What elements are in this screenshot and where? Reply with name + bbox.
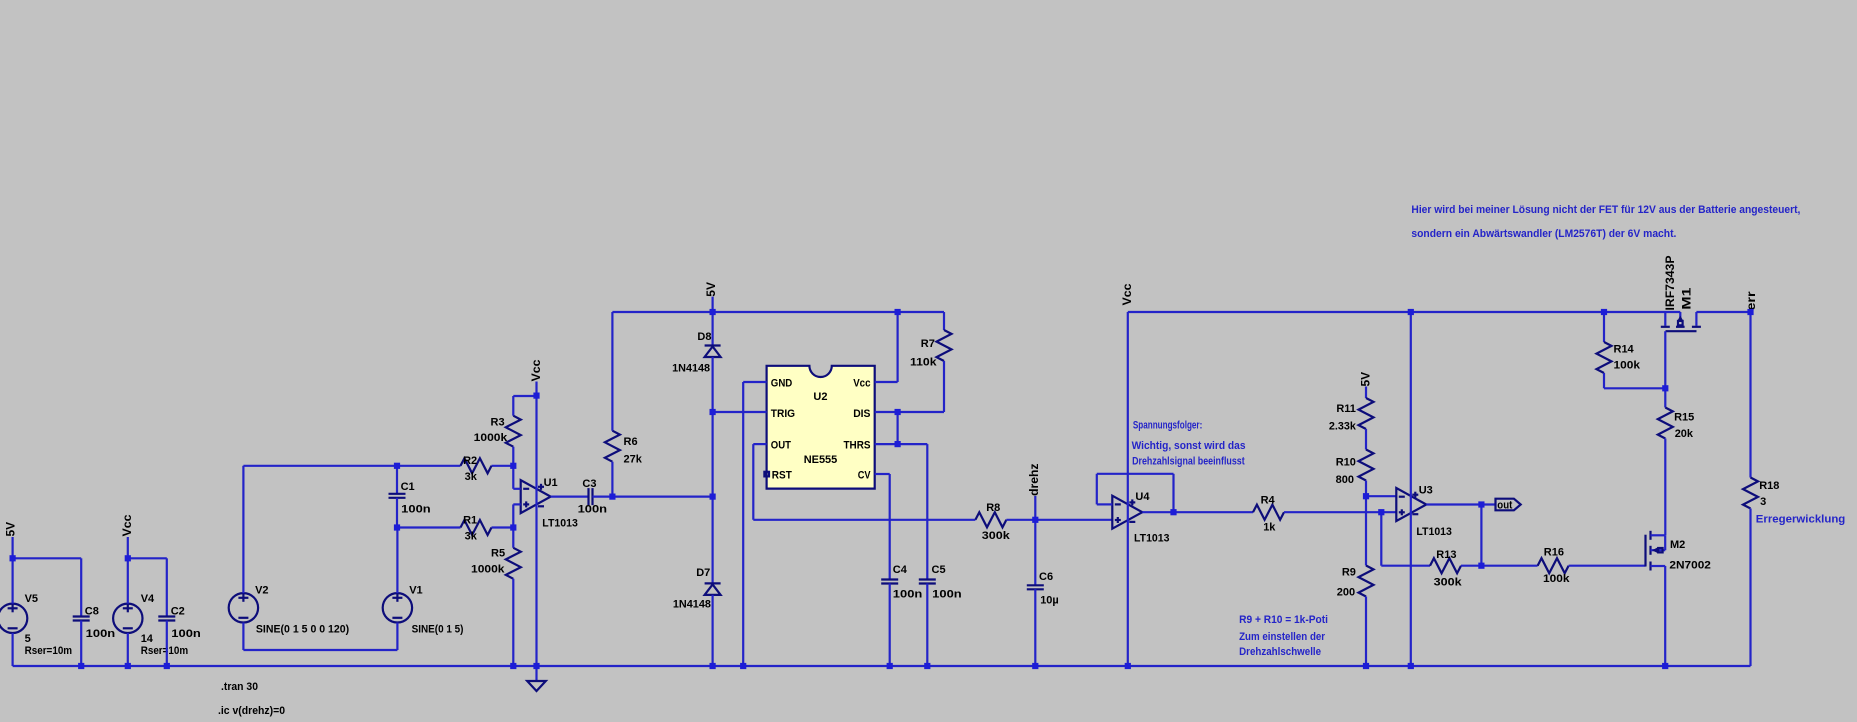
svg-text:Vcc: Vcc: [1120, 283, 1134, 305]
svg-text:R16: R16: [1544, 547, 1564, 559]
annotation Erregerwicklung: [1756, 514, 1846, 526]
capacitor C8: [73, 558, 116, 666]
svg-text:out: out: [1497, 499, 1512, 511]
svg-text:GND: GND: [771, 377, 793, 389]
wire V2 bottom: [243, 623, 397, 651]
op-amp U1 LT1013: [521, 477, 578, 530]
svg-text:3k: 3k: [465, 531, 478, 543]
junction nodes: [10, 309, 1754, 669]
svg-text:C5: C5: [932, 564, 946, 576]
wire U4 output: [1142, 511, 1253, 513]
svg-text:sondern ein Abwärtswandler (LM: sondern ein Abwärtswandler (LM2576T) der…: [1411, 228, 1676, 240]
svg-text:5V: 5V: [4, 522, 18, 537]
capacitor C6: [1027, 520, 1059, 666]
wire V1 bottom: [396, 623, 398, 651]
wire U1 non-inverting input: [513, 504, 520, 527]
svg-text:SINE(0 1 5 0 0 120): SINE(0 1 5 0 0 120): [256, 624, 350, 636]
capacitor C4: [881, 564, 922, 666]
svg-text:C3: C3: [582, 478, 596, 490]
svg-text:C8: C8: [85, 606, 99, 618]
capacitor C1: [389, 466, 432, 528]
pin wire 555 TRIG: [713, 411, 767, 413]
resistor R6: [605, 312, 643, 497]
annotation line 2: [1411, 228, 1676, 240]
pin wire 555 Vcc: [875, 312, 898, 382]
net label err: [1744, 291, 1758, 310]
wire Vcc rail: [1128, 311, 1681, 313]
svg-text:Spannungsfolger:: Spannungsfolger:: [1133, 420, 1202, 432]
svg-text:100k: 100k: [1614, 360, 1641, 372]
svg-text:100n: 100n: [401, 504, 431, 516]
wire M1 gate down: [1664, 331, 1666, 388]
svg-text:27k: 27k: [624, 453, 643, 465]
svg-text:5V: 5V: [704, 282, 718, 297]
svg-text:NE555: NE555: [804, 454, 838, 466]
wire U1 Vcc pin: [535, 382, 537, 667]
svg-text:14: 14: [141, 633, 154, 645]
wire U3 output: [1426, 503, 1495, 505]
voltage source V4: [113, 537, 188, 666]
resistor R5: [471, 528, 521, 667]
wire Vcc rail right of M1: [1696, 311, 1750, 313]
wire R3 top to Vcc node: [513, 395, 536, 397]
net label Vcc (V4): [120, 514, 134, 536]
output port flag out: [1496, 499, 1521, 512]
svg-text:100n: 100n: [578, 504, 608, 516]
transistor M2 2N7002: [1646, 531, 1711, 572]
svg-text:Vcc: Vcc: [853, 377, 870, 389]
wire 5V rail (555): [612, 311, 944, 313]
ground flag: [527, 666, 546, 691]
svg-text:1k: 1k: [1263, 522, 1276, 534]
svg-text:R13: R13: [1436, 549, 1456, 561]
diode D7 1N4148: [673, 497, 721, 666]
svg-text:CV: CV: [858, 470, 871, 482]
designator M1: [1663, 256, 1694, 311]
svg-text:Zum einstellen der: Zum einstellen der: [1239, 631, 1326, 643]
svg-text:SINE(0 1 5): SINE(0 1 5): [412, 624, 464, 636]
annotation R9+R10 poti: [1239, 614, 1328, 658]
wire C3 node to TRIG column: [612, 496, 712, 498]
svg-text:10µ: 10µ: [1040, 594, 1059, 606]
svg-text:100k: 100k: [1543, 573, 1570, 585]
directive .ic: [218, 705, 285, 717]
svg-text:U2: U2: [813, 391, 827, 403]
capacitor C5: [919, 444, 962, 666]
svg-text:THRS: THRS: [844, 440, 871, 452]
svg-text:100n: 100n: [893, 588, 923, 600]
svg-text:2.33k: 2.33k: [1329, 420, 1357, 432]
svg-text:Rser=10m: Rser=10m: [25, 645, 73, 657]
svg-text:D8: D8: [697, 331, 711, 343]
svg-text:M1: M1: [1679, 287, 1693, 309]
svg-text:Erregerwicklung: Erregerwicklung: [1756, 514, 1846, 526]
wire ground rail: [13, 665, 1751, 667]
resistor R2: [461, 455, 492, 483]
svg-text:R2: R2: [463, 455, 477, 467]
transistor M1 IRF7343P: [1661, 312, 1701, 331]
svg-text:2N7002: 2N7002: [1669, 559, 1711, 571]
svg-text:R9: R9: [1342, 567, 1356, 579]
svg-text:V2: V2: [255, 585, 268, 597]
svg-text:LT1013: LT1013: [542, 518, 578, 530]
pin wire 555 THRS: [875, 443, 928, 445]
svg-text:C2: C2: [171, 606, 185, 618]
net label 5V (555 rail): [704, 282, 718, 312]
net label 5V (V5): [4, 522, 18, 537]
resistor R9: [1337, 496, 1374, 666]
wire node A row: [243, 465, 513, 467]
resistor R18: [1743, 312, 1779, 666]
svg-text:300k: 300k: [982, 530, 1011, 542]
directive .tran: [221, 681, 258, 693]
svg-text:R11: R11: [1336, 403, 1356, 415]
svg-text:RST: RST: [772, 470, 792, 482]
pin wire 555 GND: [743, 382, 766, 666]
svg-text:100n: 100n: [171, 628, 201, 640]
wire +input to R13: [1381, 512, 1430, 566]
svg-text:err: err: [1744, 291, 1758, 310]
resistor R15: [1658, 388, 1694, 535]
pin wire 555 OUT: [753, 444, 766, 520]
svg-text:R15: R15: [1674, 412, 1694, 424]
svg-text:R18: R18: [1759, 480, 1779, 492]
svg-text:D7: D7: [696, 567, 710, 579]
svg-text:OUT: OUT: [771, 440, 791, 452]
svg-text:R7: R7: [921, 338, 935, 350]
svg-text:DIS: DIS: [853, 408, 870, 420]
capacitor C2: [158, 558, 201, 666]
svg-text:5V: 5V: [1359, 372, 1373, 387]
wire Vcc to C2: [128, 557, 167, 559]
wire OUT row to R8: [753, 519, 975, 521]
wire M2 source to rail: [1664, 566, 1666, 666]
wire R13 to R16: [1461, 565, 1538, 567]
wire U3 power column: [1410, 312, 1412, 666]
wire R1 row: [397, 526, 513, 528]
diode D8 1N4148: [672, 312, 721, 412]
resistor R14: [1597, 312, 1641, 388]
svg-text:V5: V5: [25, 593, 38, 605]
annotation Wichtig: [1132, 440, 1246, 467]
resistor R13: [1430, 549, 1463, 588]
svg-text:R4: R4: [1261, 494, 1276, 506]
svg-text:C1: C1: [401, 481, 415, 493]
wire R4 to U3 +node: [1284, 511, 1396, 513]
wire R8 to drehz node: [1006, 519, 1035, 521]
wire U4 feedback loop: [1097, 474, 1174, 512]
svg-text:800: 800: [1336, 474, 1354, 486]
svg-text:Vcc: Vcc: [529, 359, 543, 381]
voltage source V2: [229, 585, 350, 636]
net label drehz: [1027, 464, 1041, 520]
wire V2 top: [242, 466, 244, 593]
svg-text:1000k: 1000k: [474, 432, 508, 444]
capacitor C3: [551, 478, 613, 516]
wire drehz to U4 +input: [1035, 519, 1112, 521]
resistor R8: [975, 502, 1010, 542]
wire U1 inverting input: [513, 466, 520, 489]
wire U4 power column: [1127, 312, 1129, 666]
wire M2 drain: [1664, 535, 1666, 550]
wire divider node to U3 -input: [1366, 495, 1396, 497]
pin wire 555 CV: [875, 474, 890, 580]
svg-text:R5: R5: [491, 548, 505, 560]
svg-text:20k: 20k: [1675, 428, 1694, 440]
svg-text:110k: 110k: [910, 357, 937, 369]
svg-text:R9 + R10 = 1k-Poti: R9 + R10 = 1k-Poti: [1239, 614, 1328, 626]
svg-text:drehz: drehz: [1027, 464, 1041, 496]
wire R14 to gate node: [1604, 387, 1665, 389]
wire U3 feedback: [1480, 505, 1482, 566]
svg-text:R14: R14: [1614, 344, 1635, 356]
svg-text:.tran 30: .tran 30: [221, 681, 258, 693]
resistor R7: [898, 312, 952, 412]
svg-text:Drehzahlschwelle: Drehzahlschwelle: [1239, 646, 1321, 658]
svg-text:LT1013: LT1013: [1134, 533, 1170, 545]
svg-text:R10: R10: [1336, 456, 1356, 468]
resistor R10: [1336, 429, 1374, 496]
svg-text:TRIG: TRIG: [771, 408, 795, 420]
net label 5V (divider): [1359, 372, 1373, 398]
svg-text:5: 5: [25, 633, 31, 645]
svg-text:3: 3: [1760, 496, 1766, 508]
svg-text:1000k: 1000k: [471, 564, 505, 576]
svg-text:V1: V1: [409, 585, 422, 597]
svg-text:M2: M2: [1670, 539, 1685, 551]
svg-text:U1: U1: [544, 477, 558, 489]
svg-text:IRF7343P: IRF7343P: [1663, 256, 1677, 311]
svg-text:R6: R6: [624, 436, 638, 448]
svg-text:Hier wird bei meiner Lösung ni: Hier wird bei meiner Lösung nicht der FE…: [1411, 204, 1800, 216]
svg-text:U3: U3: [1419, 484, 1433, 496]
svg-text:LT1013: LT1013: [1416, 526, 1452, 538]
svg-text:1N4148: 1N4148: [672, 362, 710, 374]
voltage source V1: [383, 585, 464, 636]
svg-text:V4: V4: [141, 593, 155, 605]
svg-text:100n: 100n: [86, 628, 116, 640]
voltage source V5: [0, 537, 72, 666]
resistor R3: [474, 396, 521, 466]
resistor R1: [461, 514, 492, 542]
svg-text:.ic v(drehz)=0: .ic v(drehz)=0: [218, 705, 285, 717]
wire V1 top: [396, 528, 398, 594]
net label Vcc (top rail): [1120, 283, 1134, 305]
svg-text:R3: R3: [491, 416, 505, 428]
net label Vcc (U1): [529, 359, 543, 381]
svg-text:R8: R8: [986, 502, 1000, 514]
svg-text:300k: 300k: [1434, 576, 1463, 588]
IC U2 NE555: [764, 366, 874, 489]
resistor R16: [1538, 547, 1571, 586]
svg-text:100n: 100n: [932, 588, 962, 600]
annotation line 1: [1411, 204, 1800, 216]
svg-text:200: 200: [1337, 587, 1355, 599]
resistor R4: [1253, 494, 1284, 533]
wire DIS to THRS: [896, 412, 898, 444]
wire TRIG node down to signal node: [711, 412, 713, 497]
svg-text:U4: U4: [1135, 491, 1150, 503]
wire R16 to M2 gate: [1569, 565, 1646, 567]
op-amp U4 LT1013: [1112, 491, 1169, 545]
svg-text:3k: 3k: [465, 471, 478, 483]
svg-text:Drehzahlsignal beeinflusst: Drehzahlsignal beeinflusst: [1132, 455, 1245, 467]
svg-text:Vcc: Vcc: [120, 514, 134, 536]
pin wire 555 DIS: [875, 411, 898, 413]
annotation Spannungsfolger: [1133, 420, 1202, 432]
op-amp U3 LT1013: [1396, 484, 1452, 538]
svg-text:C4: C4: [893, 564, 908, 576]
resistor R11: [1329, 398, 1374, 432]
svg-text:R1: R1: [463, 514, 477, 526]
svg-text:Rser=10m: Rser=10m: [141, 645, 189, 657]
svg-text:Wichtig, sonst wird das: Wichtig, sonst wird das: [1132, 440, 1246, 452]
svg-text:C6: C6: [1039, 571, 1053, 583]
svg-text:1N4148: 1N4148: [673, 598, 711, 610]
wire 5V to C8: [13, 557, 82, 559]
